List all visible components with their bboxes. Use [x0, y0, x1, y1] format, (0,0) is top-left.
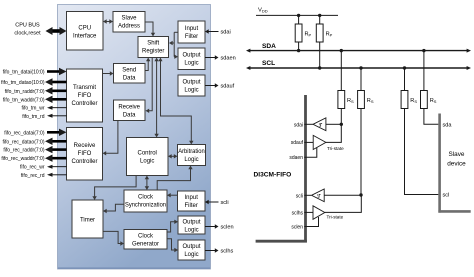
svg-text:Interface: Interface: [73, 34, 97, 40]
wire Slave Address - Shift Register: [145, 22, 155, 37]
resistor RP1: [295, 15, 311, 50]
svg-text:Arbitration: Arbitration: [178, 149, 205, 155]
svg-text:fifo_tm_raddr(7:0): fifo_tm_raddr(7:0): [5, 89, 45, 95]
box Arbitration Logic: [178, 145, 206, 166]
node SDA-RS4: [422, 49, 425, 52]
resistor RP2: [316, 15, 332, 68]
wire node right of Shift Register: [169, 32, 178, 59]
svg-text:fifo_tm_rd: fifo_tm_rd: [22, 114, 44, 120]
svg-text:Logic: Logic: [184, 88, 198, 94]
pin sclhs: [292, 211, 313, 217]
svg-text:sdaen: sdaen: [221, 56, 236, 62]
svg-text:Generator: Generator: [132, 242, 159, 248]
box Clock Generator: [124, 230, 167, 250]
svg-text:fifo_rec_waddr(7:0): fifo_rec_waddr(7:0): [1, 156, 44, 162]
buffer sdauf (tri-state output): [313, 124, 344, 151]
resistor RS2 (scl side): [358, 68, 374, 195]
svg-text:sdauf: sdauf: [221, 84, 235, 90]
fifo_rec signal labels and arrows: [1, 129, 66, 179]
pin scli: [296, 193, 311, 199]
svg-text:Data: Data: [123, 113, 136, 119]
box Timer: [72, 200, 103, 238]
wire Clock Generator - Output Logic (sclhs): [167, 239, 178, 252]
wire Shift Register - Receive Data: [146, 58, 153, 114]
svg-text:fifo_tm_waddr(7:0): fifo_tm_waddr(7:0): [3, 97, 45, 103]
resistor RS3 (slave scl): [401, 68, 438, 195]
buffer scli (input): [312, 189, 362, 202]
svg-text:SCL: SCL: [262, 60, 275, 67]
node scl-RS2: [359, 193, 362, 196]
SCL bus line: [246, 60, 471, 70]
pin sdai: [294, 122, 313, 128]
wire CPU Interface - Slave Address (double arrow): [103, 19, 113, 23]
buffer sclhs (tri-state output): [313, 195, 361, 220]
node SCL-RS2: [359, 66, 362, 69]
svg-text:Controller: Controller: [71, 159, 97, 165]
node VDD-RP1: [297, 14, 300, 17]
svg-text:Send: Send: [122, 68, 136, 74]
svg-text:Output: Output: [182, 80, 200, 86]
box CPU Interface: [67, 12, 104, 51]
node SDA-RS1: [340, 49, 343, 52]
node SCL-RS3: [403, 66, 406, 69]
svg-text:sdai: sdai: [294, 122, 303, 128]
svg-text:RS: RS: [347, 98, 354, 104]
svg-text:DI3CM-FIFO: DI3CM-FIFO: [254, 172, 292, 179]
wire Control Logic - Arbitration Logic (double arrow): [168, 154, 178, 158]
svg-text:Output: Output: [182, 53, 200, 59]
wire sclhs output: [205, 248, 233, 254]
svg-text:Input: Input: [185, 195, 199, 201]
svg-text:RP: RP: [305, 32, 312, 38]
wire Arbitration - Clock Synchronization: [157, 166, 193, 191]
box Slave Address: [113, 12, 145, 33]
svg-text:Register: Register: [142, 49, 164, 55]
svg-text:scli: scli: [296, 193, 303, 199]
svg-text:sdauf: sdauf: [291, 140, 304, 146]
svg-text:sclen: sclen: [221, 225, 234, 231]
svg-text:fifo_rec_wr: fifo_rec_wr: [20, 165, 45, 171]
svg-text:fifo_tm_datao(10:0): fifo_tm_datao(10:0): [1, 80, 45, 86]
DI3CM-FIFO block background: [58, 5, 211, 270]
svg-text:clock,reset: clock,reset: [14, 31, 41, 37]
svg-text:RS: RS: [410, 98, 417, 104]
box Output Logic (sdauf): [178, 75, 205, 96]
svg-text:scl: scl: [443, 193, 450, 199]
box Control Logic: [127, 138, 169, 176]
svg-text:fifo_tm_datai(10:0): fifo_tm_datai(10:0): [3, 70, 45, 76]
node VDD-RP2: [318, 14, 321, 17]
wire Control Logic - Timer: [92, 176, 136, 201]
svg-text:sclhs: sclhs: [221, 249, 234, 255]
wire Clock Synchronization - Timer: [103, 204, 124, 213]
resistor RS4 (slave sda): [421, 51, 439, 125]
svg-text:fifo_tm_wr: fifo_tm_wr: [21, 106, 44, 112]
box Output Logic (sclhs): [178, 240, 205, 260]
svg-text:Input: Input: [185, 26, 199, 32]
svg-text:Filter: Filter: [185, 34, 198, 40]
svg-text:Receive: Receive: [118, 105, 140, 111]
CPU BUS thick double arrow: [46, 27, 67, 35]
wire Timer - Clock Generator: [103, 231, 124, 245]
svg-text:Logic: Logic: [184, 252, 198, 258]
wire Transmit FIFO - Send Data: [103, 71, 114, 75]
svg-text:Timer: Timer: [80, 218, 95, 224]
pin sclen: [291, 217, 318, 231]
box Receive FIFO Controller: [67, 128, 103, 181]
svg-text:Tri-state: Tri-state: [327, 146, 344, 151]
svg-text:Control: Control: [138, 151, 157, 157]
SDA bus line: [246, 43, 471, 53]
svg-text:sdaen: sdaen: [289, 155, 303, 161]
svg-text:Tri-state: Tri-state: [327, 215, 344, 220]
node SDA-RP1: [297, 49, 300, 52]
node sdai-RS1: [340, 123, 343, 126]
box Shift Register: [138, 37, 169, 58]
DI3CM-FIFO bracket: [256, 95, 307, 242]
wire Shift Register - Control Logic (bidirectional): [154, 58, 158, 138]
svg-text:Data: Data: [123, 76, 136, 82]
box Receive Data: [114, 100, 146, 121]
wire Clock Generator - Output Logic (sclen): [167, 220, 178, 232]
svg-text:RP: RP: [326, 32, 333, 38]
svg-text:Transmit: Transmit: [73, 85, 96, 91]
svg-text:fifo_rec_rd: fifo_rec_rd: [21, 173, 45, 179]
wire Shift Register - Arbitration Logic: [158, 58, 193, 145]
svg-text:RS: RS: [367, 98, 374, 104]
wire sdai input: [205, 29, 231, 35]
svg-text:Output: Output: [182, 244, 200, 250]
Slave device bracket: [438, 114, 470, 213]
svg-text:CPU BUS: CPU BUS: [15, 23, 40, 29]
fifo_tm signal labels and arrows: [1, 68, 66, 120]
Slave device label: [447, 151, 466, 168]
svg-text:RS: RS: [430, 98, 437, 104]
resistor RS1 (sda side): [338, 51, 354, 125]
svg-text:Logic: Logic: [140, 159, 154, 165]
svg-text:SDA: SDA: [262, 43, 276, 50]
box Input Filter (sda): [178, 21, 205, 43]
svg-text:scli: scli: [221, 200, 229, 206]
wire Send Data - Shift Register: [145, 58, 150, 71]
svg-text:fifo_rec_datai(7:0): fifo_rec_datai(7:0): [4, 130, 45, 136]
svg-text:Slave: Slave: [449, 151, 465, 158]
wire Input Filter (scl) - Clock Synchronization: [167, 193, 178, 197]
box Output Logic (sclen): [178, 216, 205, 234]
svg-text:sdai: sdai: [221, 30, 231, 36]
svg-text:Slave: Slave: [121, 16, 137, 22]
svg-text:fifo_rec_raddr(7:0): fifo_rec_raddr(7:0): [3, 148, 44, 154]
box Output Logic (sdaen): [178, 48, 205, 70]
box Input Filter (scl): [178, 191, 206, 211]
node SCL-RP2: [318, 66, 321, 69]
svg-text:VDD: VDD: [258, 8, 268, 14]
VDD rail: [256, 8, 338, 16]
svg-text:Receive: Receive: [74, 143, 96, 149]
box Clock Synchronization: [124, 190, 167, 212]
svg-text:FIFO: FIFO: [78, 151, 92, 157]
svg-text:FIFO: FIFO: [78, 93, 92, 99]
svg-text:fifo_rec_datao(7:0): fifo_rec_datao(7:0): [3, 139, 45, 145]
wire sdauf output: [205, 83, 235, 89]
svg-text:sclen: sclen: [291, 225, 303, 231]
wire sclen output: [205, 224, 234, 230]
wire sdaen output: [205, 55, 236, 61]
wire Control Logic - Clock Synchronization (double arrow): [145, 176, 149, 191]
svg-text:device: device: [447, 161, 466, 168]
svg-text:Synchronization: Synchronization: [125, 203, 166, 209]
svg-text:Output: Output: [182, 220, 200, 226]
wire scli input: [205, 200, 229, 206]
svg-text:Controller: Controller: [71, 101, 97, 107]
buffer sdai (input): [313, 118, 341, 131]
svg-text:sclhs: sclhs: [292, 211, 304, 217]
svg-text:Filter: Filter: [185, 203, 198, 209]
svg-text:Logic: Logic: [184, 61, 198, 67]
svg-text:Address: Address: [118, 24, 140, 30]
svg-text:Logic: Logic: [184, 157, 198, 163]
svg-text:CPU: CPU: [78, 26, 91, 32]
svg-text:sda: sda: [443, 122, 453, 128]
svg-text:Clock: Clock: [138, 234, 154, 240]
pin sdauf: [291, 140, 313, 146]
wire Receive Data - Receive FIFO: [103, 121, 118, 156]
box Transmit FIFO Controller: [67, 69, 103, 122]
svg-text:Shift: Shift: [147, 41, 159, 47]
svg-text:Logic: Logic: [184, 228, 198, 234]
box Send Data: [114, 64, 146, 84]
svg-text:Clock: Clock: [138, 195, 154, 201]
pin sdaen: [289, 148, 316, 162]
